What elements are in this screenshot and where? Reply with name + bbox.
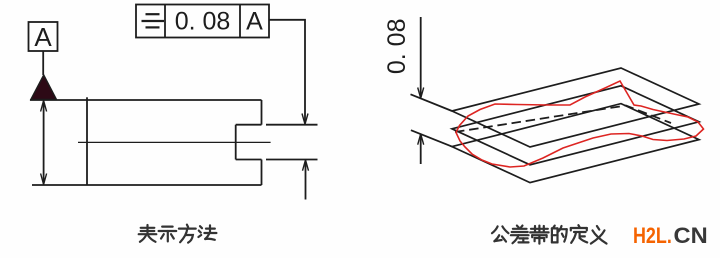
- feature control frame: [136, 5, 269, 38]
- extension line bottom plane: [411, 130, 452, 146]
- tolerance plane bottom: [452, 104, 699, 183]
- left dimension arrow down: [41, 174, 47, 185]
- lower arrow line: [305, 161, 307, 200]
- glyph 的: [552, 226, 567, 243]
- svg-text:A: A: [34, 22, 52, 52]
- glyph 带: [530, 226, 548, 244]
- dashed datum centerline: [455, 106, 671, 133]
- glyph 义: [591, 226, 607, 244]
- glyph 差: [511, 226, 529, 244]
- leader arrow down: [302, 114, 308, 125]
- glyph 方: [179, 225, 196, 243]
- caption left: 表示方法: [139, 225, 217, 243]
- glyph 表: [139, 225, 157, 242]
- glyph 定: [571, 225, 587, 243]
- svg-text:H2L.: H2L.: [633, 223, 672, 248]
- right dim arrow down: [418, 88, 424, 99]
- right dim arrow up: [418, 134, 424, 145]
- part top edge with left extension line: [30, 99, 262, 101]
- center plane middle: [452, 86, 699, 165]
- svg-text:0. 08: 0. 08: [175, 8, 231, 36]
- part right edge lower: [261, 160, 263, 186]
- centerline: [78, 141, 271, 143]
- part bottom edge with left extension line: [32, 184, 262, 186]
- tolerance plane top: [452, 68, 699, 147]
- slot top edge: [236, 124, 262, 126]
- left dimension arrow up: [41, 101, 47, 112]
- svg-text:0. 08: 0. 08: [383, 18, 411, 74]
- part right edge upper: [261, 100, 263, 125]
- slot left edge: [235, 125, 237, 160]
- symmetry symbol: [142, 14, 165, 27]
- slot bottom edge: [236, 159, 262, 161]
- caption right: 公差带的定义: [492, 225, 607, 243]
- svg-text:A: A: [246, 8, 263, 36]
- slot bottom extension line: [266, 159, 318, 161]
- part left edge: [86, 97, 88, 185]
- frame divider 2: [239, 5, 241, 38]
- slot top extension line: [266, 124, 318, 126]
- svg-text:CN: CN: [674, 223, 708, 248]
- datum label box A: [29, 22, 58, 51]
- left dimension line: [43, 101, 45, 184]
- glyph 法: [198, 225, 216, 239]
- datum connector line: [42, 51, 44, 75]
- right dim line upper: [420, 17, 422, 97]
- actual surface (red wavy): [456, 81, 704, 167]
- lower arrow up: [303, 160, 309, 171]
- right dim line lower: [420, 134, 422, 164]
- leader from frame: [269, 20, 305, 123]
- frame divider 1: [164, 5, 166, 38]
- glyph 公: [492, 226, 508, 241]
- extension line top plane: [411, 94, 453, 111]
- glyph 示: [159, 227, 177, 242]
- datum triangle: [31, 75, 57, 100]
